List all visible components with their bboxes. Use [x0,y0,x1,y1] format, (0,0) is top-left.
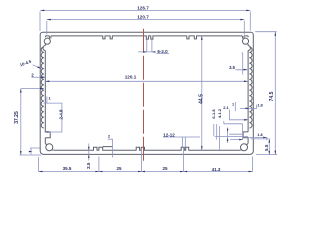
right wall inner line [247,44,249,143]
svg-text:4-1.2: 4-1.2 [217,108,222,118]
svg-text:120.7: 120.7 [137,15,149,20]
bottom wall inner surface with rib pairs [54,147,240,151]
svg-text:3.5: 3.5 [229,65,235,70]
svg-text:35.5: 35.5 [63,166,72,171]
svg-text:126.7: 126.7 [137,5,149,10]
top wall inner surface with rib pairs [45,36,248,39]
svg-text:74.5: 74.5 [269,91,275,101]
profile outer outline [40,32,253,154]
svg-text:1: 1 [232,102,234,106]
svg-text:41.3: 41.3 [212,167,221,172]
svg-text:37.25: 37.25 [14,111,20,124]
leader 1.8 right wall [240,105,257,109]
dim 74.5 right [255,32,277,155]
leader 3.5 right top [236,53,248,75]
dim 2 left wall thickness [32,76,46,78]
leader 2.1 [230,110,249,120]
bottom-left screw boss [46,144,53,151]
red centerline [143,29,145,163]
left wall serrations [41,47,44,128]
bottom-right screw boss [241,144,248,151]
left wall step [45,132,50,138]
svg-text:1.8: 1.8 [257,102,263,107]
right wall serrations [249,47,252,128]
svg-text:2.1: 2.1 [223,105,229,110]
tick and label 1 left wall [46,97,48,104]
svg-text:5.5: 5.5 [264,144,269,151]
left wall inner line [44,44,46,143]
right wall step [243,132,248,138]
dim 6-2.0 top [138,40,155,52]
right boss dim cluster [214,121,269,150]
dim 120.7 line [47,20,245,35]
top-right screw port [242,38,248,44]
dim 5.5 bottom right [268,139,270,155]
dim 120.1 inner width [45,80,248,82]
dim 126.7 line [40,10,250,31]
bottom chain dims [39,148,253,172]
left bottom bracket [30,148,40,154]
top-left screw port [44,38,50,44]
svg-text:6-1.8: 6-1.8 [211,109,216,119]
svg-text:44.5: 44.5 [199,94,205,104]
dim 44.5 center vertical [201,36,203,150]
svg-text:2.5: 2.5 [86,162,91,169]
leader 2-4.8 [44,103,62,132]
callout x112 [108,139,113,158]
svg-text:25: 25 [116,166,122,171]
svg-text:1.8: 1.8 [257,133,262,137]
dim 37.25 left [20,89,45,155]
dim 2.5 bottom wall thickness [88,144,90,161]
svg-text:120.1: 120.1 [125,74,137,79]
leader 10-4.5 [33,65,42,69]
svg-text:25: 25 [162,166,168,171]
svg-text:1: 1 [49,97,51,101]
svg-text:2-4.8: 2-4.8 [58,109,63,120]
leader 1.8 lower right [248,137,267,140]
